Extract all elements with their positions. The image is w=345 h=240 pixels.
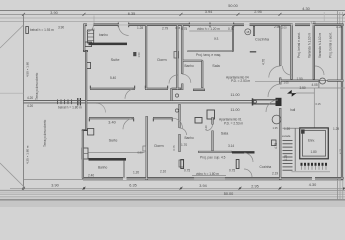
svg-text:1.50: 1.50 [297, 77, 303, 81]
top eave line [0, 20, 345, 22]
proj line left of varanda wall [255, 81, 279, 83]
door arc upper unit to hall area [269, 66, 281, 78]
svg-text:Varanda h 1.10 m: Varanda h 1.10 m [318, 33, 322, 58]
svg-text:Terraço descoberto: Terraço descoberto [43, 119, 47, 147]
bottom dim ticks [22, 187, 345, 190]
bottom band line 2b [0, 196, 345, 198]
svg-text:0.80: 0.80 [138, 151, 144, 155]
banho dark bar [89, 158, 127, 161]
right projection vertical line [337, 11, 339, 200]
top wall window thin lines [189, 23, 234, 25]
svg-text:11.00: 11.00 [230, 93, 239, 97]
terrace bottom edge line [24, 179, 84, 181]
kitchen counter piece [250, 51, 256, 53]
svg-text:A2: A2 [92, 28, 96, 32]
window sill line [189, 30, 233, 32]
banho partition vertical [123, 161, 125, 179]
varanda bottom wall [279, 80, 319, 82]
svg-text:vidro h = 1.80 m: vidro h = 1.80 m [196, 172, 219, 176]
lower unit separation wall [147, 104, 180, 180]
svg-text:0.70: 0.70 [228, 27, 234, 31]
svg-text:0.75: 0.75 [172, 145, 176, 151]
svg-text:0.75: 0.75 [181, 27, 187, 31]
svg-text:2.95: 2.95 [254, 10, 261, 14]
svg-text:1.20: 1.20 [133, 170, 139, 174]
elevator box [300, 128, 328, 158]
svg-text:4.30: 4.30 [302, 7, 309, 11]
svg-text:Proj. beiral e aext.: Proj. beiral e aext. [329, 32, 333, 58]
shaft rect 2 [195, 118, 202, 124]
svg-text:0.75: 0.75 [229, 168, 235, 172]
bottom dim line [10, 187, 345, 189]
svg-text:3.90: 3.90 [51, 184, 58, 188]
shaft rect 1 [207, 110, 215, 119]
extension line at door jamb [93, 16, 95, 25]
bottom band line 2 [0, 193, 345, 195]
roof hip diagonal top-left [0, 25, 24, 48]
corridor right end wall bar [276, 98, 282, 106]
svg-text:1.50: 1.50 [137, 52, 141, 58]
roof hip diagonal bottom-left [0, 163, 24, 186]
svg-text:2.10: 2.10 [160, 169, 166, 173]
svg-text:Varanda h 1.10 m: Varanda h 1.10 m [308, 33, 312, 58]
svg-text:3.94: 3.94 [199, 184, 206, 188]
interior walls upper-middle unit [182, 25, 254, 90]
svg-text:18: 18 [246, 30, 250, 34]
staircase steps hatch [283, 141, 293, 171]
svg-text:Suíte: Suíte [111, 58, 120, 62]
svg-text:beiral h = 1.93 m: beiral h = 1.93 m [30, 28, 54, 32]
svg-text:3.14: 3.14 [228, 144, 234, 148]
svg-text:Sala: Sala [212, 64, 220, 68]
top frame line [0, 10, 345, 12]
left terrace boundary vertical line [23, 14, 25, 190]
fixture on lower sep wall [179, 160, 184, 167]
svg-text:1.35: 1.35 [273, 126, 279, 130]
small duct rect near stairs [272, 140, 277, 146]
svg-text:2.20: 2.20 [204, 125, 208, 131]
left wall closet box [88, 30, 94, 43]
interior wall banho upper-left [89, 43, 128, 46]
svg-text:vidro h = 1.20 m: vidro h = 1.20 m [197, 27, 220, 31]
terrace door arc [96, 103, 106, 113]
svg-text:Dorm: Dorm [154, 144, 163, 148]
stair upper shaft line [318, 82, 320, 88]
stair shaft left wall [294, 128, 296, 171]
svg-text:1.20: 1.20 [284, 127, 290, 131]
upper wall jamb ticks [89, 86, 172, 122]
svg-text:4.75: 4.75 [284, 155, 288, 161]
stair landing line [292, 171, 331, 173]
svg-text:beiral h = 1.80 m: beiral h = 1.80 m [58, 106, 82, 110]
svg-text:1.28: 1.28 [137, 26, 143, 30]
svg-text:Banho: Banho [185, 136, 194, 140]
svg-text:4.20: 4.20 [27, 104, 33, 108]
top segment dim line [0, 13, 345, 15]
varanda lower thin line [280, 87, 345, 89]
svg-text:Terraço descoberto: Terraço descoberto [35, 72, 39, 100]
bottom dim dots [22, 187, 344, 189]
wall base thin line [83, 180, 344, 182]
svg-text:4.70: 4.70 [262, 59, 266, 65]
left dim extension line [0, 92, 24, 94]
svg-text:Cozinha: Cozinha [260, 165, 272, 169]
upper unit bottom wall segments [90, 89, 205, 90]
bottom page band darker [0, 201, 345, 207]
svg-text:2.19: 2.19 [272, 171, 278, 175]
svg-text:0.15: 0.15 [316, 102, 322, 106]
balusters dotted row [301, 163, 328, 166]
varanda section verticals [292, 24, 314, 80]
bottom entrance jambs [181, 160, 184, 169]
door tag circle 18 [245, 29, 251, 35]
corridor window marks [58, 99, 72, 104]
lower middle unit hall wall dark [232, 151, 255, 153]
interior verticals upper-left unit [146, 25, 177, 101]
lower units top wall segments [89, 117, 173, 119]
entrance level marker symbol [287, 90, 291, 94]
lower-middle unit walls [213, 25, 281, 180]
entrance dim line [192, 174, 226, 176]
bottom page band light [0, 197, 345, 208]
svg-text:2.95: 2.95 [251, 184, 258, 188]
svg-text:Dorm: Dorm [157, 58, 166, 62]
svg-text:Suíte: Suíte [109, 138, 118, 142]
svg-text:escada: escada [282, 134, 291, 138]
bottom band line 3 strong [0, 199, 345, 201]
svg-text:4.75: 4.75 [274, 143, 278, 149]
svg-text:1.25: 1.25 [311, 21, 317, 25]
svg-text:4.20: 4.20 [27, 96, 33, 100]
door tag circle [272, 115, 281, 124]
svg-text:a.s.: a.s. [214, 36, 219, 40]
svg-text:3.90: 3.90 [58, 26, 64, 30]
top dim ticks [22, 13, 345, 16]
svg-text:4.50 × 1.80: 4.50 × 1.80 [25, 62, 29, 77]
svg-text:2.79: 2.79 [162, 26, 168, 30]
pillar terrace [26, 27, 29, 34]
top faint line 3 [0, 17, 345, 19]
wall light cores (double-line wall style) [83, 24, 343, 180]
entrance glass thin lines in bottom wall [194, 176, 224, 178]
svg-text:5.40: 5.40 [110, 76, 116, 80]
svg-text:3.90: 3.90 [50, 11, 57, 15]
bottom band line 1 [0, 189, 345, 191]
svg-text:banho: banho [99, 33, 108, 37]
svg-text:3.40: 3.40 [108, 120, 115, 124]
right wall projection lines to bottom [339, 180, 341, 200]
svg-text:6.35: 6.35 [128, 12, 135, 16]
corridor/eave double line [24, 100, 257, 102]
bottom band faint line 1b [0, 191, 345, 193]
svg-text:2.00: 2.00 [282, 25, 288, 29]
svg-text:Banho: Banho [185, 64, 194, 68]
svg-text:4.75: 4.75 [339, 148, 343, 154]
window rect in unit sep wall [174, 52, 179, 59]
svg-text:hall: hall [290, 108, 295, 112]
corridor rail right portion [253, 99, 276, 101]
svg-text:50.00: 50.00 [228, 4, 238, 8]
svg-text:Elev.: Elev. [308, 138, 315, 142]
svg-text:1.70: 1.70 [181, 143, 187, 147]
right outer wall [341, 25, 343, 180]
svg-text:1.29: 1.29 [333, 127, 339, 131]
svg-text:1.05: 1.05 [284, 81, 290, 85]
small box at jog [88, 129, 94, 136]
left outer wall [83, 24, 86, 179]
svg-text:50.00: 50.00 [224, 192, 234, 196]
svg-text:Sala: Sala [221, 131, 229, 135]
svg-text:4.5: 4.5 [221, 155, 226, 159]
jamb mark on suite wall [143, 146, 146, 151]
suite thin line [89, 151, 145, 153]
svg-text:2.96: 2.96 [274, 25, 280, 29]
svg-text:Proj. tanq. e maq.: Proj. tanq. e maq. [196, 53, 221, 57]
elevator corner mark [301, 130, 305, 134]
level label line [296, 92, 314, 94]
svg-text:3.50: 3.50 [300, 86, 306, 90]
svg-text:0.75: 0.75 [184, 168, 190, 172]
svg-text:4.25 × 1.80 m: 4.25 × 1.80 m [25, 145, 29, 164]
svg-text:Banho: Banho [98, 165, 107, 169]
svg-text:11.00: 11.00 [230, 108, 239, 112]
svg-text:3.94: 3.94 [205, 10, 212, 14]
door arcs [87, 25, 325, 177]
svg-text:Proj. beiral e aext.: Proj. beiral e aext. [297, 32, 301, 58]
svg-text:2.40: 2.40 [88, 174, 94, 178]
svg-text:0.15: 0.15 [175, 26, 181, 30]
svg-text:6.35: 6.35 [129, 184, 136, 188]
svg-text:1.80: 1.80 [311, 150, 317, 154]
svg-text:1.20: 1.20 [336, 25, 342, 29]
svg-text:4.30: 4.30 [309, 183, 316, 187]
left wall jog pieces [83, 50, 88, 52]
bottom outer wall [83, 177, 344, 179]
left wall window rect lower [82, 148, 88, 159]
small block near banho [133, 52, 136, 56]
left wall window rect 2 [86, 63, 91, 69]
building top wall [84, 24, 344, 27]
svg-text:4.05: 4.05 [312, 83, 318, 87]
svg-text:Cozinha: Cozinha [255, 38, 270, 42]
svg-text:Proj. pav. sup.: Proj. pav. sup. [200, 156, 220, 160]
svg-text:P.D. = 2.53 m: P.D. = 2.53 m [231, 79, 251, 83]
left wall window rect 1 [85, 42, 92, 47]
svg-text:P.D. = 2.53 m: P.D. = 2.53 m [224, 122, 244, 126]
